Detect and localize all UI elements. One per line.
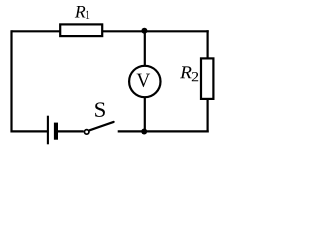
wire bottom-right (bottom corner through node B to switch contact): [118, 130, 209, 132]
resistor R2 (box): [201, 58, 213, 99]
node B (bottom junction dot): [141, 129, 147, 135]
wire bottom-left (left corner to battery): [12, 130, 48, 132]
switch S pivot (open circle): [84, 130, 89, 135]
wire left side (vertical): [10, 30, 12, 132]
battery cell: short thick plate (negative): [54, 123, 58, 140]
wire voltmeter branch lower (voltmeter down to node B): [144, 96, 146, 131]
label S: [95, 102, 105, 117]
wire top-right (R1 right through node A to right corner): [102, 30, 209, 32]
battery cell: long plate (positive): [47, 116, 49, 145]
wire right lower (R2 bottom down to bottom corner): [207, 98, 209, 133]
wire voltmeter branch upper (node A down to voltmeter): [144, 31, 146, 67]
voltmeter U1 (circle): [129, 66, 160, 97]
wire top-left (battery+ to R1 left): [12, 30, 62, 32]
label R1: [75, 6, 90, 19]
wire battery to switch pivot: [58, 130, 84, 132]
switch S blade (open arm): [90, 122, 114, 130]
label V (voltmeter): [137, 74, 151, 88]
wire right upper (corner down to R2 top): [207, 30, 209, 59]
node A (top junction dot): [141, 28, 147, 34]
resistor R1 (box): [60, 24, 102, 36]
label R2: [180, 66, 198, 81]
